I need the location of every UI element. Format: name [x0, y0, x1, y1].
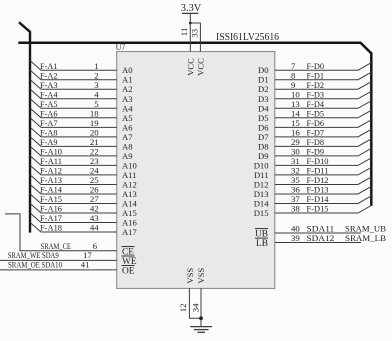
- svg-text:42: 42: [90, 204, 99, 214]
- wire VSS pin 12: [189, 288, 201, 318]
- wire SRAM_CE (pin 6): [5, 214, 117, 251]
- svg-text:A8: A8: [122, 141, 133, 151]
- ground symbol: [190, 327, 212, 333]
- svg-text:F-D6: F-D6: [307, 118, 325, 128]
- svg-text:F-A3: F-A3: [40, 80, 58, 90]
- wire F-D15 (pin 38): [275, 204, 372, 214]
- svg-text:SRAM_UB: SRAM_UB: [345, 224, 386, 234]
- svg-text:F-A4: F-A4: [40, 89, 58, 99]
- svg-text:D10: D10: [254, 160, 269, 170]
- svg-text:SRAM_LB: SRAM_LB: [345, 233, 386, 243]
- wire F-D8 (pin 29): [275, 137, 372, 147]
- svg-text:D4: D4: [258, 103, 269, 113]
- svg-text:D1: D1: [258, 75, 269, 85]
- svg-text:A12: A12: [122, 179, 137, 189]
- svg-text:F-D15: F-D15: [307, 204, 330, 214]
- svg-text:D11: D11: [254, 170, 268, 180]
- wire F-A11 (pin 23): [30, 156, 117, 166]
- svg-text:A11: A11: [122, 170, 136, 180]
- wire F-D14 (pin 37): [275, 194, 372, 204]
- svg-text:VSS: VSS: [185, 268, 195, 284]
- svg-text:F-A7: F-A7: [40, 118, 58, 128]
- wire F-A12 (pin 24): [30, 165, 117, 175]
- wire F-A4 (pin 4): [30, 89, 117, 99]
- wire F-D3 (pin 10): [275, 89, 372, 99]
- svg-text:2: 2: [94, 70, 98, 80]
- svg-text:17: 17: [83, 250, 92, 260]
- svg-text:F-A15: F-A15: [40, 194, 63, 204]
- svg-text:14: 14: [291, 109, 300, 119]
- pin name OE (active low): [122, 266, 135, 277]
- svg-text:44: 44: [90, 223, 99, 233]
- svg-text:37: 37: [291, 194, 300, 204]
- svg-text:F-A9: F-A9: [40, 137, 58, 147]
- svg-text:F-D0: F-D0: [307, 61, 325, 71]
- wire F-A10 (pin 22): [30, 146, 117, 156]
- svg-text:29: 29: [291, 137, 300, 147]
- wire F-D12 (pin 35): [275, 175, 372, 185]
- svg-text:F-D9: F-D9: [307, 147, 325, 157]
- svg-text:F-A5: F-A5: [40, 99, 58, 109]
- wire F-A7 (pin 19): [30, 118, 117, 128]
- svg-text:31: 31: [291, 156, 300, 166]
- svg-text:VCC: VCC: [196, 58, 206, 76]
- wire SRAM_LB / SDA12 (pin 39): [275, 233, 386, 243]
- svg-text:D0: D0: [258, 65, 269, 75]
- wire SRAM_WE / SDA9 (pin 17): [0, 250, 117, 260]
- svg-text:D13: D13: [254, 189, 269, 199]
- wire VCC pin 11: [189, 23, 191, 52]
- svg-text:A14: A14: [122, 198, 138, 208]
- wire F-D2 (pin 9): [275, 80, 372, 90]
- svg-text:F-D2: F-D2: [307, 80, 325, 90]
- svg-text:22: 22: [90, 147, 99, 157]
- wire F-D13 (pin 36): [275, 185, 372, 195]
- svg-text:F-A13: F-A13: [40, 175, 63, 185]
- svg-text:24: 24: [90, 166, 99, 176]
- wire F-D1 (pin 8): [275, 70, 372, 80]
- svg-text:10: 10: [291, 89, 300, 99]
- svg-text:VSS: VSS: [196, 268, 206, 284]
- svg-text:30: 30: [291, 147, 300, 157]
- wire VSS pin 34: [200, 288, 202, 326]
- wire F-A9 (pin 21): [30, 137, 117, 147]
- svg-text:F-A12: F-A12: [40, 166, 62, 176]
- svg-text:36: 36: [291, 185, 300, 195]
- svg-text:5: 5: [94, 99, 99, 109]
- svg-text:35: 35: [291, 175, 300, 185]
- wire F-A5 (pin 5): [30, 99, 117, 109]
- wire F-A3 (pin 3): [30, 80, 117, 90]
- svg-text:D14: D14: [254, 198, 270, 208]
- svg-text:A6: A6: [122, 122, 133, 132]
- address bus (left vertical): [19, 22, 30, 232]
- wire F-D10 (pin 31): [275, 156, 372, 166]
- svg-text:F-D14: F-D14: [307, 194, 330, 204]
- wire F-A6 (pin 18): [30, 108, 117, 118]
- SRAM chip U7 body: [117, 52, 275, 289]
- svg-text:27: 27: [90, 194, 99, 204]
- svg-text:23: 23: [90, 156, 99, 166]
- wire F-D0 (pin 7): [275, 61, 372, 71]
- svg-text:A7: A7: [122, 132, 133, 142]
- svg-text:25: 25: [90, 175, 99, 185]
- svg-text:OE: OE: [122, 266, 135, 276]
- wire F-A16 (pin 42): [30, 203, 117, 213]
- svg-text:33: 33: [189, 28, 199, 37]
- pin name UB (active low): [255, 229, 268, 240]
- wire SRAM_OE / SDA10 (pin 41): [0, 260, 117, 270]
- wire F-D11 (pin 32): [275, 166, 372, 176]
- svg-text:F-D7: F-D7: [307, 128, 325, 138]
- svg-text:A4: A4: [122, 103, 133, 113]
- svg-text:F-A14: F-A14: [40, 185, 63, 195]
- wire F-A18 (pin 44): [30, 222, 117, 232]
- svg-text:F-A8: F-A8: [40, 128, 58, 138]
- svg-text:SDA11: SDA11: [307, 224, 335, 234]
- svg-text:34: 34: [190, 303, 200, 312]
- svg-text:D5: D5: [258, 113, 269, 123]
- svg-text:A0: A0: [122, 65, 133, 75]
- svg-text:F-D13: F-D13: [307, 185, 330, 195]
- svg-text:3.3V: 3.3V: [181, 3, 202, 14]
- power symbol 3.3V: [181, 3, 202, 23]
- svg-text:F-A17: F-A17: [40, 213, 63, 223]
- data bus (top horizontal and right vertical): [18, 43, 371, 206]
- svg-text:A16: A16: [122, 218, 138, 228]
- pin name LB (active low): [255, 238, 268, 249]
- svg-text:9: 9: [291, 80, 296, 90]
- node: VSS junction: [199, 316, 203, 320]
- svg-text:A17: A17: [122, 227, 138, 237]
- wire F-D7 (pin 16): [275, 128, 372, 138]
- svg-text:A15: A15: [122, 208, 137, 218]
- svg-text:F-D3: F-D3: [307, 89, 325, 99]
- svg-text:D8: D8: [258, 141, 269, 151]
- svg-text:F-D1: F-D1: [307, 70, 325, 80]
- wire F-A8 (pin 20): [30, 127, 117, 137]
- svg-text:F-A11: F-A11: [40, 156, 62, 166]
- svg-text:F-D11: F-D11: [307, 166, 329, 176]
- svg-text:F-D8: F-D8: [307, 137, 325, 147]
- svg-text:F-A6: F-A6: [40, 109, 58, 119]
- wire F-A15 (pin 27): [30, 194, 117, 204]
- svg-text:3: 3: [94, 80, 99, 90]
- svg-text:18: 18: [90, 109, 99, 119]
- svg-text:A5: A5: [122, 113, 133, 123]
- svg-text:43: 43: [90, 213, 99, 223]
- svg-text:A3: A3: [122, 94, 133, 104]
- svg-text:20: 20: [90, 128, 99, 138]
- svg-text:6: 6: [93, 241, 98, 251]
- svg-text:15: 15: [291, 118, 300, 128]
- svg-text:F-D4: F-D4: [307, 99, 325, 109]
- svg-text:F-A2: F-A2: [40, 70, 58, 80]
- svg-text:F-A18: F-A18: [40, 223, 63, 233]
- svg-text:D15: D15: [254, 208, 269, 218]
- svg-text:A10: A10: [122, 160, 137, 170]
- svg-text:LB: LB: [256, 239, 268, 249]
- svg-text:A13: A13: [122, 189, 137, 199]
- wire F-D6 (pin 15): [275, 118, 372, 128]
- svg-text:F-A16: F-A16: [40, 204, 63, 214]
- node: VCC junction: [189, 22, 192, 25]
- svg-text:F-D5: F-D5: [307, 109, 325, 119]
- pin name VCC (x2): [185, 58, 205, 76]
- wire F-A1 (pin 1): [30, 61, 117, 71]
- svg-text:F-D10: F-D10: [307, 156, 330, 166]
- svg-text:VCC: VCC: [185, 58, 195, 76]
- svg-text:8: 8: [291, 70, 296, 80]
- svg-text:D6: D6: [258, 122, 269, 132]
- wire SRAM_UB / SDA11 (pin 40): [275, 224, 386, 234]
- svg-text:40: 40: [291, 224, 300, 234]
- wire F-A14 (pin 26): [30, 184, 117, 194]
- svg-text:A9: A9: [122, 151, 133, 161]
- wire F-D4 (pin 13): [275, 99, 372, 109]
- svg-text:1: 1: [94, 61, 98, 71]
- svg-text:A2: A2: [122, 84, 133, 94]
- pin name VSS (x2): [185, 268, 206, 284]
- svg-text:D7: D7: [258, 132, 269, 142]
- svg-text:16: 16: [291, 128, 300, 138]
- svg-text:D3: D3: [258, 94, 269, 104]
- wire F-D9 (pin 30): [275, 147, 372, 157]
- wire F-A13 (pin 25): [30, 175, 117, 185]
- pin name CE (active low): [122, 247, 135, 258]
- svg-text:41: 41: [81, 260, 90, 270]
- svg-text:32: 32: [291, 166, 300, 176]
- wire F-D5 (pin 14): [275, 109, 372, 119]
- svg-text:19: 19: [90, 118, 99, 128]
- wire F-A2 (pin 2): [30, 70, 117, 80]
- svg-text:11: 11: [179, 28, 189, 36]
- svg-text:4: 4: [94, 89, 99, 99]
- svg-text:D9: D9: [258, 151, 269, 161]
- svg-text:A1: A1: [122, 75, 133, 85]
- svg-text:SRAM_WE SDA9: SRAM_WE SDA9: [8, 250, 59, 260]
- wire F-A17 (pin 43): [30, 213, 117, 223]
- svg-text:12: 12: [178, 304, 188, 313]
- svg-text:26: 26: [90, 185, 99, 195]
- pin name WE (active low): [122, 256, 137, 267]
- svg-text:ISSI61LV25616: ISSI61LV25616: [216, 32, 279, 43]
- svg-text:13: 13: [291, 99, 300, 109]
- svg-text:39: 39: [291, 233, 300, 243]
- svg-text:D12: D12: [254, 179, 269, 189]
- svg-text:SDA12: SDA12: [307, 233, 335, 243]
- svg-text:F-A1: F-A1: [40, 61, 58, 71]
- svg-text:F-A10: F-A10: [40, 147, 63, 157]
- svg-text:7: 7: [291, 61, 296, 71]
- svg-text:21: 21: [90, 137, 99, 147]
- wire VCC pin 33: [190, 23, 200, 52]
- svg-text:F-D12: F-D12: [307, 175, 329, 185]
- svg-text:38: 38: [291, 204, 300, 214]
- svg-text:SRAM_OE SDA10: SRAM_OE SDA10: [8, 260, 62, 270]
- svg-text:D2: D2: [258, 84, 269, 94]
